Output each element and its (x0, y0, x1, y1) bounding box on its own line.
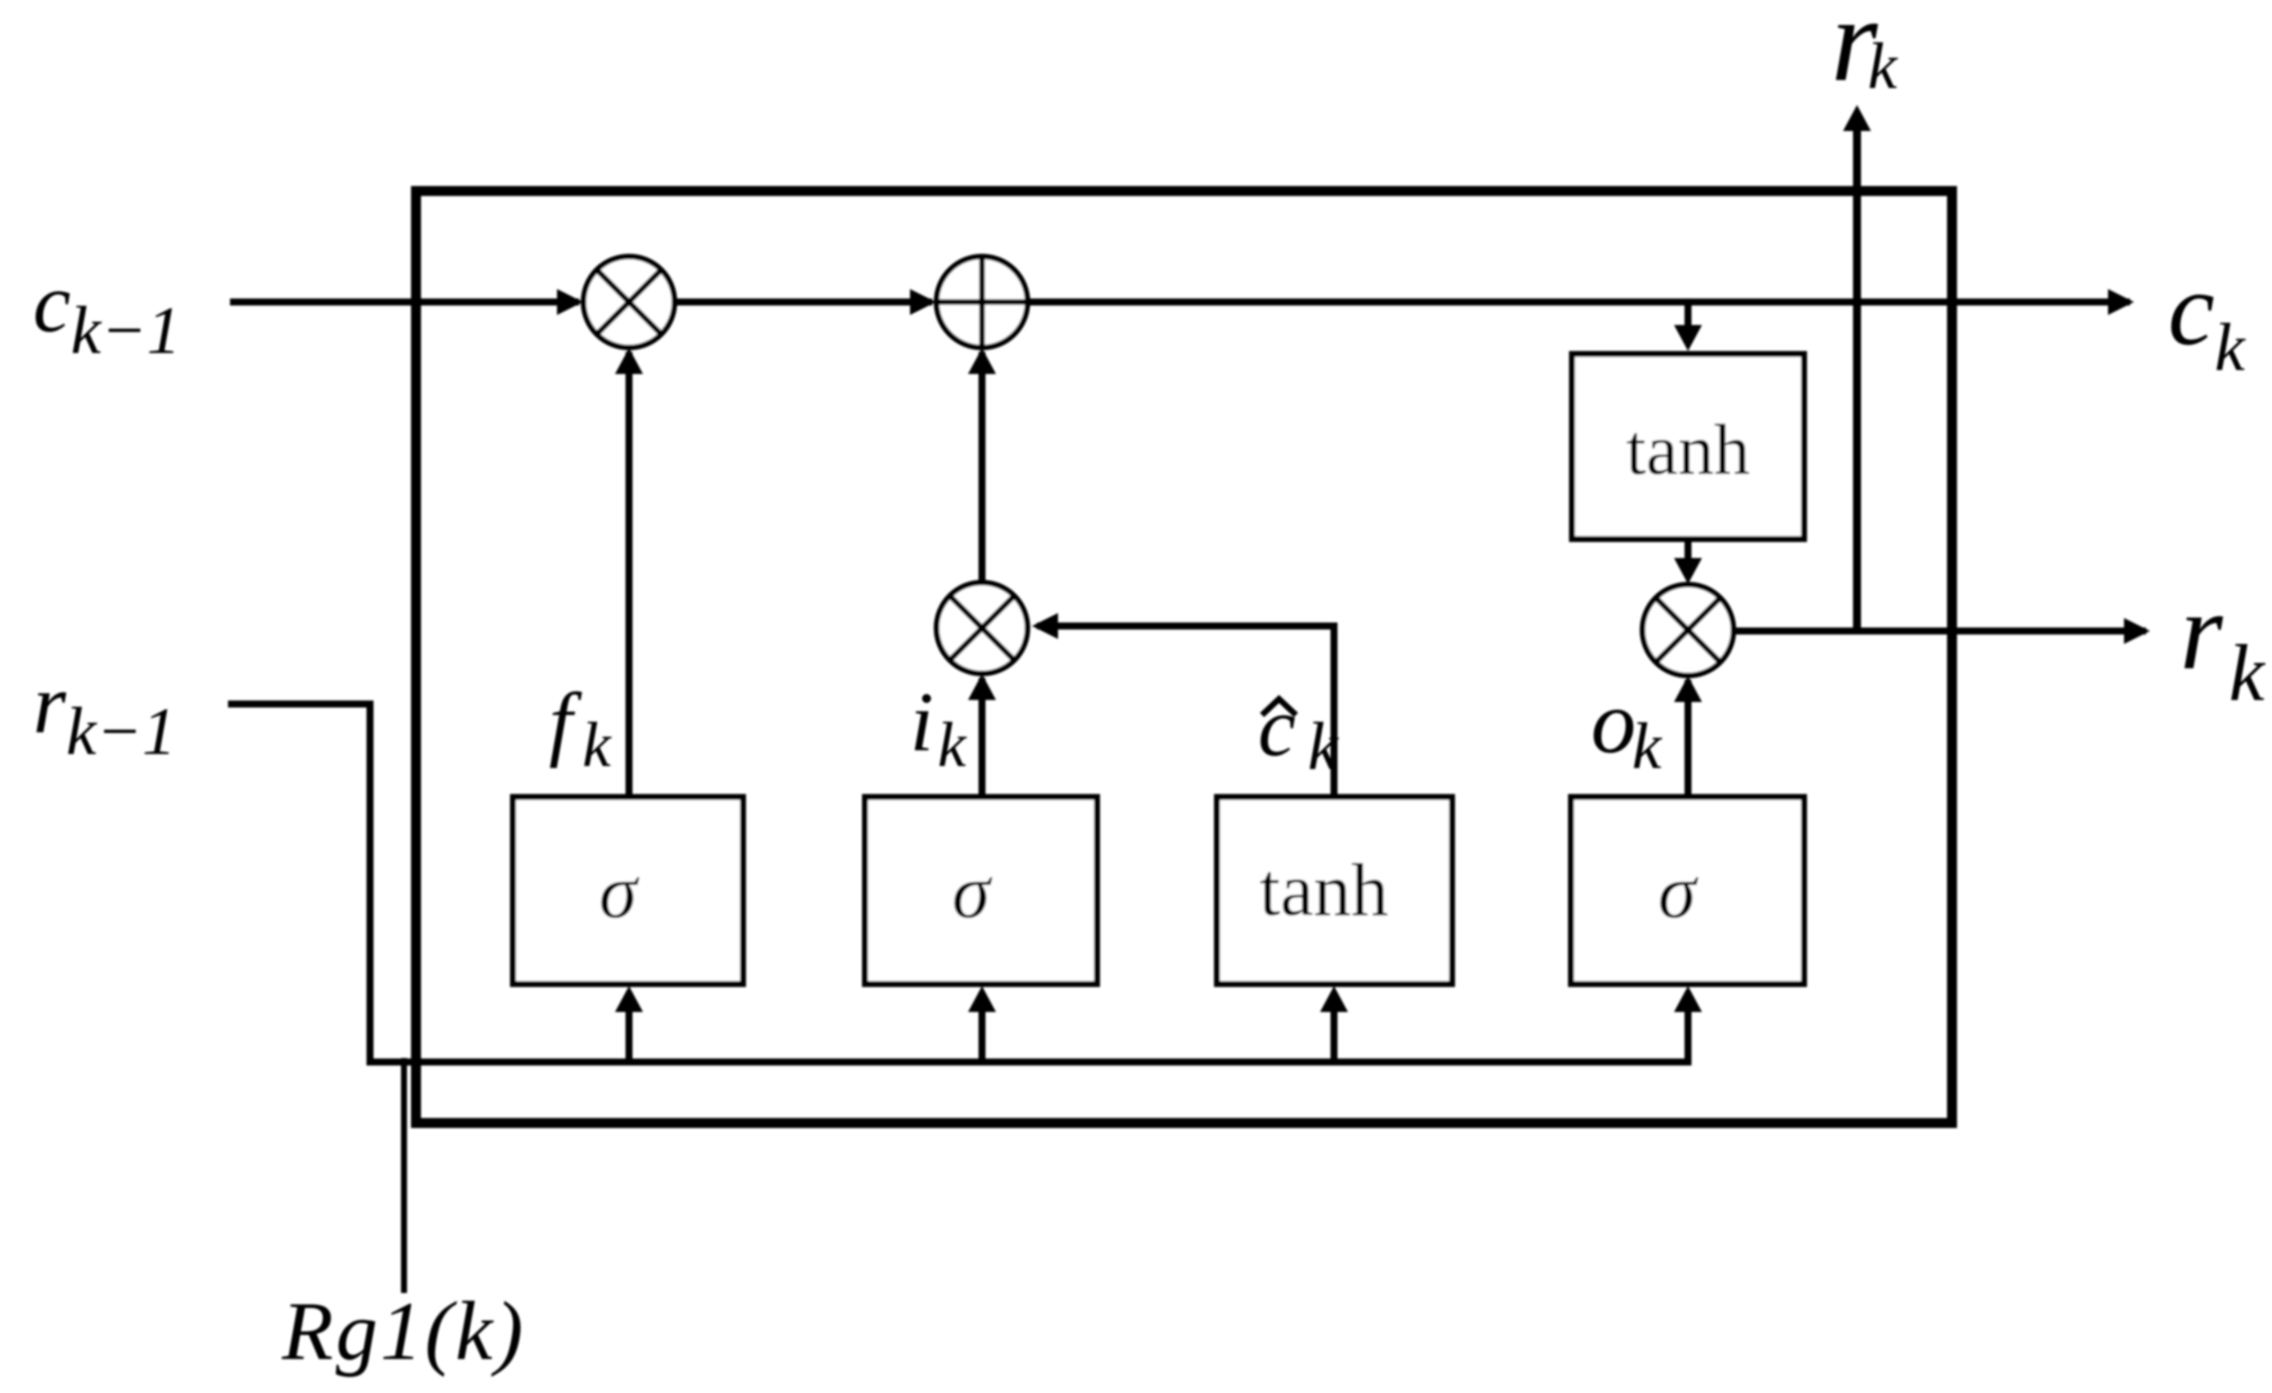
node r_k output label (right) (2180, 570, 2266, 718)
sigma block 1 (forget gate) (513, 797, 743, 984)
node c-hat_k label (1258, 680, 1340, 784)
svg-text:tanh: tanh (1626, 410, 1750, 490)
node c_k output label (2168, 250, 2247, 385)
LSTM cell outer box (416, 191, 1952, 1123)
node r_{k-1} input label (33, 657, 176, 769)
node c_{k-1} input label (33, 256, 181, 368)
wire branch up into sigma1 (615, 986, 643, 1062)
node i_k label (910, 675, 968, 780)
node r_k output label (top) (1831, 0, 1899, 106)
wire branch up into sigma2 (968, 986, 996, 1062)
wire r_k branch upward out of box (1843, 105, 1871, 631)
wire X1 to adder (674, 289, 936, 315)
wire i_k from sigma2 to X3 (968, 674, 996, 797)
tanh block (cell output squash) (1572, 354, 1804, 539)
svg-text:σ: σ (952, 848, 993, 934)
svg-text:tanh: tanh (1259, 849, 1388, 932)
adder node (plus in circle) (937, 257, 1028, 348)
sigma block 2 (input gate) (865, 797, 1097, 984)
node f_k label (549, 676, 612, 780)
wire c-hat from tanh block 3 to X3 (1032, 613, 1334, 797)
node Rg1(k) input label (281, 1285, 526, 1378)
wire r_{k-1} input feed along bottom (228, 704, 1702, 1062)
wire c_{k-1} into multiplier (230, 289, 583, 315)
wire f_k from sigma1 to X1 (615, 348, 643, 797)
svg-text:Rg1(k): Rg1(k) (281, 1285, 526, 1378)
wire adder to c_k output (1027, 289, 2134, 315)
wire X4 to r_k output (right) (1733, 618, 2150, 644)
multiplier node X3 (input gate product) (937, 583, 1028, 674)
svg-text:σ: σ (599, 848, 640, 934)
multiplier node X4 (output gate product) (1643, 585, 1734, 676)
wire X3 to adder (968, 348, 996, 582)
node o_k label (1591, 673, 1663, 783)
wire Rg1(k) input (401, 1058, 407, 1293)
wire tanh block to multiplier X4 (1674, 539, 1702, 584)
tanh block 3 (candidate) (1217, 797, 1452, 984)
svg-text:σ: σ (1658, 848, 1699, 934)
wire branch down into tanh block (1674, 302, 1702, 351)
wire o_k from sigma4 to X4 (1674, 676, 1702, 797)
multiplier node X1 (forget gate product) (584, 257, 675, 348)
wire branch up into tanh block 3 (1320, 986, 1348, 1062)
sigma block 4 (output gate) (1571, 797, 1804, 984)
